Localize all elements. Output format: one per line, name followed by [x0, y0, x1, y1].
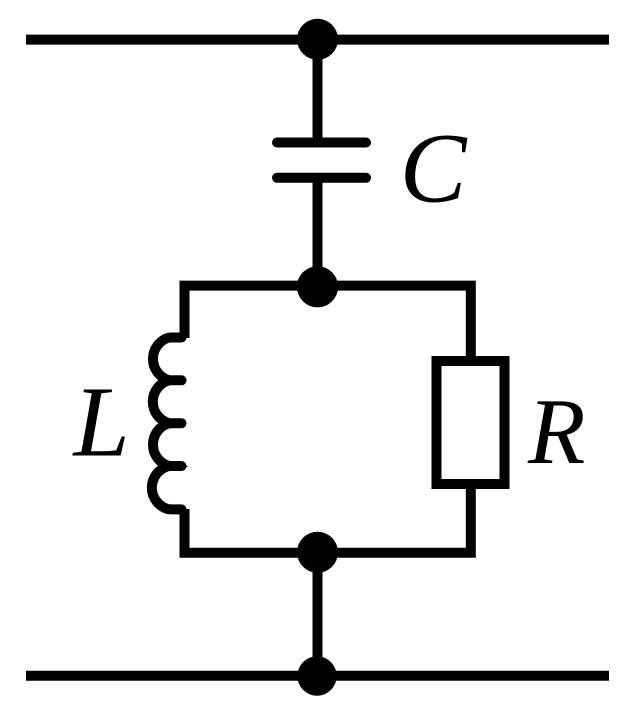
svg-text:L: L: [72, 365, 130, 477]
svg-text:R: R: [527, 380, 585, 484]
svg-text:C: C: [400, 113, 468, 224]
